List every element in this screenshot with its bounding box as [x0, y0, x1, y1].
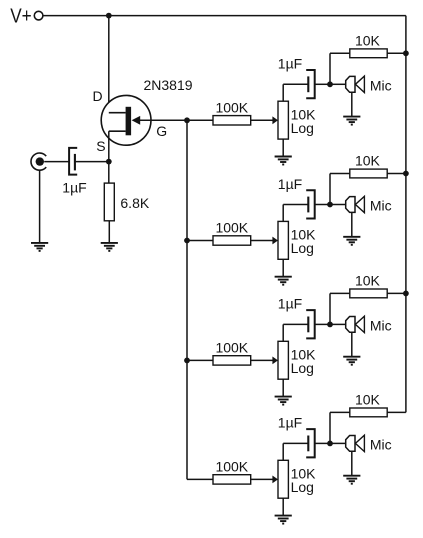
wire to R4b: [330, 411, 350, 413]
transistor Q1 2N3819: [101, 95, 151, 145]
wire drain lead: [108, 16, 110, 113]
wire mic3 ground lead: [351, 332, 353, 356]
wire source to R1: [108, 162, 110, 184]
label 6.8K: [120, 195, 149, 211]
svg-text:Mic: Mic: [370, 198, 392, 214]
label 100K ch1: [215, 99, 248, 115]
svg-text:10K: 10K: [355, 272, 381, 288]
capacitor C4 1uF: [306, 310, 315, 338]
junction bus channel 1: [184, 117, 190, 123]
svg-text:2N3819: 2N3819: [144, 77, 193, 93]
junction top rail / drain: [106, 13, 112, 19]
wire VR4 top lead: [282, 443, 284, 460]
svg-text:100K: 100K: [215, 339, 248, 355]
label 100K ch2: [215, 220, 248, 236]
terminal input jack: [31, 153, 46, 170]
resistor R4b 10K: [350, 408, 387, 417]
svg-text:1µF: 1µF: [62, 180, 86, 196]
resistor R4a 100K: [213, 475, 251, 484]
wire VR1 bottom lead: [282, 139, 284, 156]
label Mic ch4: [370, 436, 392, 452]
svg-text:1µF: 1µF: [278, 56, 302, 72]
wire R2a to wiper: [251, 240, 274, 242]
label 10K ch4: [355, 391, 381, 407]
wire R4a to wiper: [251, 478, 274, 480]
svg-text:100K: 100K: [215, 220, 248, 236]
wire source lead: [108, 131, 110, 161]
junction rail ch2: [403, 171, 409, 177]
wire C2 to mic node: [315, 83, 330, 85]
resistor R2b 10K: [350, 169, 387, 178]
svg-text:100K: 100K: [215, 458, 248, 474]
wire input to C1: [44, 161, 69, 163]
wire mic node up ch4: [329, 412, 331, 443]
wire R4b to rail: [387, 411, 406, 413]
wire VR3 to C4: [283, 323, 308, 325]
svg-text:S: S: [96, 138, 105, 154]
junction mic node ch3: [327, 322, 333, 328]
wire VR3 bottom lead: [282, 379, 284, 396]
wire mic4 ground lead: [351, 451, 353, 475]
svg-text:100K: 100K: [215, 99, 248, 115]
svg-text:V+: V+: [10, 5, 32, 28]
microphone Mic4: [346, 435, 365, 451]
wire mic2 ground lead: [351, 212, 353, 236]
wire mic node up ch3: [329, 293, 331, 324]
potentiometer VR3 10K Log: [278, 341, 288, 379]
wire VR4 to C5: [283, 442, 308, 444]
wire VR1 top lead: [282, 84, 284, 101]
wire R1 to ground: [108, 221, 110, 243]
wire bus to R3a: [187, 359, 213, 361]
microphone Mic3: [346, 316, 365, 332]
ground VR3: [275, 397, 292, 405]
wire C1 to source node: [75, 161, 109, 163]
label Mic ch3: [370, 317, 392, 333]
svg-text:Log: Log: [291, 120, 314, 136]
label 2N3819: [144, 77, 193, 93]
label 10K ch2: [355, 153, 381, 169]
wire input ground lead: [39, 170, 41, 243]
svg-text:Mic: Mic: [370, 77, 392, 93]
pin label S: [96, 138, 105, 154]
capacitor C3 1uF: [306, 190, 315, 218]
svg-text:Mic: Mic: [370, 317, 392, 333]
wire mic node to mic2: [330, 204, 346, 206]
svg-text:6.8K: 6.8K: [120, 195, 149, 211]
resistor R1b 10K: [350, 49, 387, 58]
wire R3a to wiper: [251, 359, 274, 361]
capacitor C5 1uF: [306, 429, 315, 457]
label Mic ch1: [370, 77, 392, 93]
wire gate bus: [186, 120, 188, 479]
label 100K ch4: [215, 458, 248, 474]
potentiometer VR4 10K Log: [278, 460, 288, 498]
junction mic node ch2: [327, 202, 333, 208]
potentiometer VR2 10K Log: [278, 221, 288, 259]
svg-text:G: G: [156, 123, 167, 139]
resistor R1 6.8K: [104, 183, 114, 221]
wire C5 to mic node: [315, 442, 330, 444]
resistor R2a 100K: [213, 236, 251, 245]
wire R1b to rail: [387, 52, 406, 54]
ground mic2: [343, 237, 360, 245]
label 10K Log ch3: [291, 346, 317, 376]
svg-text:D: D: [93, 88, 103, 104]
ground input jack: [31, 243, 48, 251]
label 10K ch3: [355, 272, 381, 288]
microphone Mic2: [346, 196, 365, 212]
ground mic4: [343, 476, 360, 484]
label 10K Log ch4: [291, 465, 317, 495]
svg-text:10K: 10K: [355, 32, 381, 48]
wire R2b to rail: [387, 173, 406, 175]
wire to R2b: [330, 173, 350, 175]
label 1uF input: [62, 180, 86, 196]
junction rail ch3: [403, 291, 409, 297]
potentiometer VR1 10K Log: [278, 101, 288, 139]
wire VR2 to C3: [283, 204, 308, 206]
label 1uF ch3: [278, 296, 302, 312]
svg-text:1µF: 1µF: [278, 176, 302, 192]
wiper arrow VR4: [272, 476, 278, 484]
wiper arrow VR2: [272, 237, 278, 245]
wire R1a to wiper: [251, 119, 274, 121]
pin label G: [156, 123, 167, 139]
ground mic1: [343, 117, 360, 125]
terminal V+ supply: [34, 11, 43, 20]
svg-text:10K: 10K: [355, 391, 381, 407]
label Mic ch2: [370, 198, 392, 214]
svg-text:1µF: 1µF: [278, 296, 302, 312]
wire VR2 top lead: [282, 205, 284, 222]
wire R3b to rail: [387, 292, 406, 294]
pin label D: [93, 88, 103, 104]
label 10K Log ch1: [291, 106, 317, 136]
wire mic node up ch1: [329, 53, 331, 84]
ground R1: [101, 243, 118, 251]
wiper arrow VR3: [272, 357, 278, 365]
svg-text:Mic: Mic: [370, 436, 392, 452]
microphone Mic1: [346, 76, 365, 92]
wire VR3 top lead: [282, 324, 284, 341]
wire gate to bus: [138, 119, 187, 121]
wire mic1 ground lead: [351, 92, 353, 116]
wire VR1 to C2: [283, 83, 308, 85]
wire bus to R1a: [187, 119, 213, 121]
wire C3 to mic node: [315, 204, 330, 206]
svg-text:1µF: 1µF: [278, 415, 302, 431]
wire to R3b: [330, 292, 350, 294]
wire bus to R2a: [187, 240, 213, 242]
wire mic node to mic4: [330, 442, 346, 444]
wire to R1b: [330, 52, 350, 54]
label 1uF ch4: [278, 415, 302, 431]
ground VR4: [275, 516, 292, 524]
wire V+ top rail: [43, 15, 406, 17]
resistor R1a 100K: [213, 116, 251, 125]
wire VR4 bottom lead: [282, 498, 284, 515]
resistor R3b 10K: [350, 289, 387, 298]
wiper arrow VR1: [272, 116, 278, 124]
svg-text:Log: Log: [291, 360, 314, 376]
junction bus channel 3: [184, 358, 190, 364]
ground VR2: [275, 277, 292, 285]
ground mic3: [343, 357, 360, 365]
junction mic node ch1: [327, 81, 333, 87]
label 100K ch3: [215, 339, 248, 355]
svg-text:Log: Log: [291, 479, 314, 495]
junction mic node ch4: [327, 441, 333, 447]
wire mic node up ch2: [329, 174, 331, 205]
wire mic node to mic1: [330, 83, 346, 85]
junction source node: [106, 159, 112, 165]
wire right rail: [405, 16, 407, 413]
junction rail ch1: [403, 50, 409, 56]
label 1uF ch1: [278, 56, 302, 72]
svg-text:Log: Log: [291, 240, 314, 256]
resistor R3a 100K: [213, 356, 251, 365]
label 10K ch1: [355, 32, 381, 48]
capacitor C1 1uF: [69, 148, 77, 175]
junction bus channel 2: [184, 238, 190, 244]
wire bus to R4a: [187, 478, 213, 480]
svg-text:10K: 10K: [355, 153, 381, 169]
wire VR2 bottom lead: [282, 259, 284, 276]
ground VR1: [275, 157, 292, 165]
capacitor C2 1uF: [306, 70, 315, 98]
net label V+: [10, 5, 32, 28]
label 1uF ch2: [278, 176, 302, 192]
wire mic node to mic3: [330, 323, 346, 325]
wire C4 to mic node: [315, 323, 330, 325]
label 10K Log ch2: [291, 227, 317, 257]
